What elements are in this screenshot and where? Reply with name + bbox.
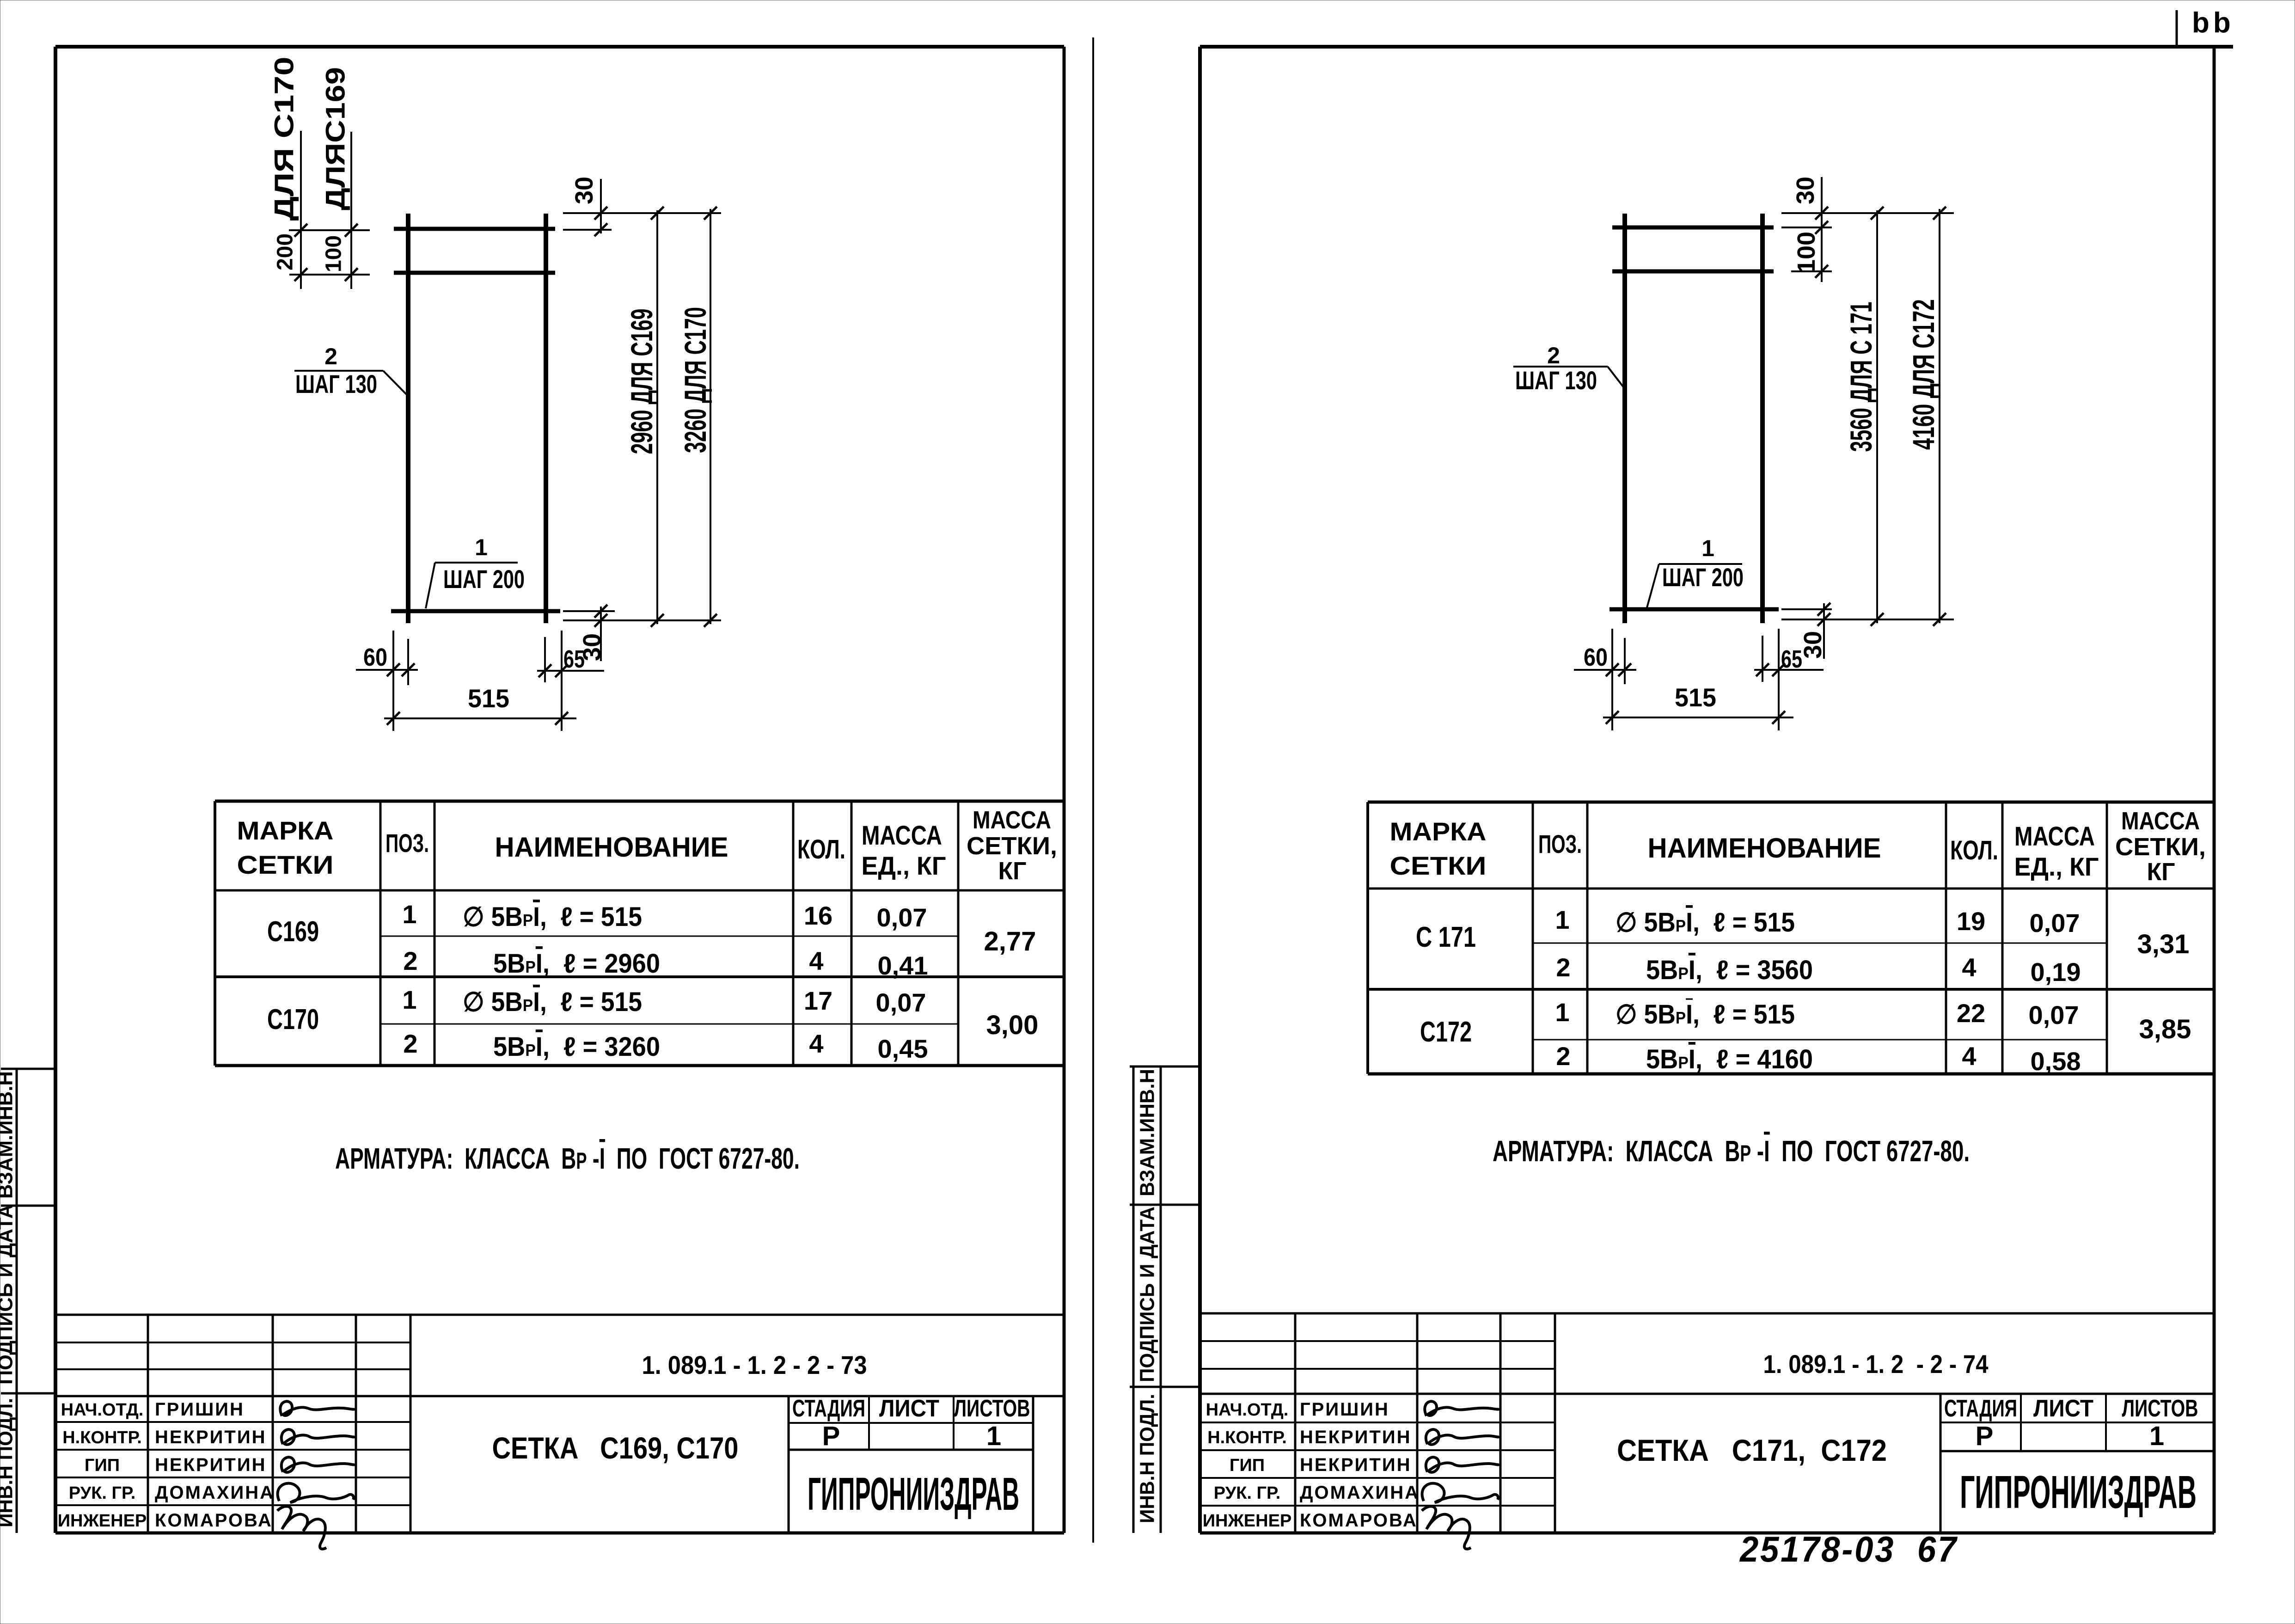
mesh2 right vertical wire [1760,214,1765,623]
table1 col МАССА СЕТКИ left [957,801,960,1066]
title1 col line 1 [147,1315,149,1533]
title2 signature Домахина [1422,1483,1499,1502]
svg-text:НЕКРИТИН: НЕКРИТИН [1300,1455,1411,1475]
svg-text:ЕД., КГ: ЕД., КГ [2014,852,2099,881]
title1 name row line 1 [56,1421,410,1423]
svg-text:17: 17 [804,986,832,1015]
svg-text:2: 2 [403,946,417,975]
svg-text:∅ 5ВРI, ℓ = 515: ∅ 5ВРI, ℓ = 515 [1616,999,1795,1030]
ext line left wire bottom [407,639,409,685]
title1 thin row line 2 [56,1368,410,1370]
table2 col КОЛ left [1945,802,1947,1074]
title2 signature Некритин 2 [1426,1457,1499,1472]
svg-text:1: 1 [1555,905,1569,934]
svg-text:ГРИШИН: ГРИШИН [155,1399,245,1420]
mesh2 top horizontal wire [1612,226,1774,230]
svg-text:СЕТКИ: СЕТКИ [237,850,334,879]
svg-text:2: 2 [403,1029,417,1058]
sheet2 frame left [1198,47,1202,1533]
svg-text:3,85: 3,85 [2139,1014,2191,1044]
svg-text:25178-03 67: 25178-03 67 [1739,1529,1958,1569]
mesh1 second horizontal wire [394,271,555,275]
svg-text:МАССА: МАССА [973,806,1051,834]
svg-text:0,19: 0,19 [2031,957,2081,987]
dim line 4160 для С172 [1939,209,1940,623]
title1 Р row underline [789,1449,1033,1451]
svg-text:АРМАТУРА: КЛАССА ВР -I ПО: АРМАТУРА: КЛАССА ВР -I ПО ГОСТ 6727-80. [1493,1134,1970,1168]
leader ШАГ 130 sheet2 [1608,367,1625,389]
svg-text:РУК. ГР.: РУК. ГР. [69,1483,136,1503]
sheet2 frame top [1200,45,2233,49]
table1 left border [214,801,216,1066]
dim line 3260 для С170 [710,209,711,624]
dim line 60 sheet2 [1574,669,1636,671]
svg-text:ПОЗ.: ПОЗ. [1538,829,1582,858]
dim line 515 sheet2 [1603,717,1793,718]
title2 main separator [1200,1393,2214,1395]
title1 signature Некритин [282,1429,355,1445]
title1 signature Гришин [280,1401,355,1416]
svg-text:КОМАРОВА: КОМАРОВА [1300,1510,1418,1531]
svg-text:С172: С172 [1420,1016,1472,1048]
title1 main separator [56,1395,1064,1397]
ext line mesh1 top right [563,212,721,214]
svg-text:С169: С169 [267,916,319,948]
dim line 100 для С169 [350,132,352,289]
svg-text:2: 2 [324,343,337,369]
svg-text:1: 1 [475,534,488,560]
svg-text:3,31: 3,31 [2137,929,2190,959]
svg-text:С170: С170 [267,1004,319,1036]
svg-text:НАИМЕНОВАНИЕ: НАИМЕНОВАНИЕ [495,832,728,863]
table1 C169 rows thin line [380,936,958,937]
title2 Р row underline [1940,1450,2214,1452]
strip2 divider 1 [1130,1204,1200,1206]
dim line 515 [384,717,576,719]
svg-text:КГ: КГ [998,857,1027,885]
svg-text:ДОМАХИНА: ДОМАХИНА [1300,1483,1420,1503]
title2 col СТАДИЯ/ЛИСТ [2020,1394,2022,1451]
leader from ШАГ 200 to wire [426,563,435,608]
svg-text:ПОДПИСЬ И ДАТА: ПОДПИСЬ И ДАТА [0,1204,17,1385]
title2 name row line 2 [1200,1449,1555,1451]
table1 header line [215,889,1064,892]
label 2 underline sheet2 [1513,366,1608,368]
dim ext line top (y=498) [289,229,370,231]
label 2 underline [294,370,383,372]
ext line top wire right [563,229,612,231]
ext line mesh2 top wire [1781,227,1832,228]
svg-text:1: 1 [402,985,416,1014]
ext line right wire bottom sheet2 [1762,636,1763,682]
title1 signature Комарова [277,1506,326,1549]
table2 top border [1368,801,2214,804]
svg-text:0,45: 0,45 [878,1034,928,1063]
svg-text:ИНЖЕНЕР: ИНЖЕНЕР [1203,1511,1292,1531]
dim line 60 [356,669,418,671]
svg-text:bb: bb [2192,7,2234,39]
dim line 30 bottom sheet2 [1823,603,1825,659]
table2 col МАССА ЕД left [2001,802,2004,1074]
svg-text:2: 2 [1547,343,1560,368]
ext line bottom left end [392,631,394,731]
svg-text:5ВРI, ℓ = 3560: 5ВРI, ℓ = 3560 [1646,955,1813,985]
svg-text:СЕТКА С169, С170: СЕТКА С169, С170 [492,1431,739,1465]
ext line bottom right end [561,631,563,731]
table2 col НАИМЕНОВАНИЕ left [1586,802,1589,1074]
svg-text:ШАГ 200: ШАГ 200 [443,564,525,594]
table2 col МАССА СЕТКИ left [2106,802,2108,1074]
svg-text:1: 1 [402,900,416,929]
table1 col НАИМЕНОВАНИЕ left [434,801,436,1066]
svg-text:ПОЗ.: ПОЗ. [386,828,429,858]
svg-text:ГИП: ГИП [1230,1456,1265,1475]
table1 top border [215,800,1064,803]
svg-text:0,58: 0,58 [2031,1047,2081,1076]
svg-text:60: 60 [363,643,387,671]
svg-text:0,41: 0,41 [878,951,928,980]
ext line mesh2 bottom [1781,619,1954,620]
mesh1 bottom horizontal wire [391,609,560,613]
strip2 vertical left [1132,1066,1135,1533]
sheet1 frame left [54,47,57,1533]
ext line mesh2 second wire [1791,270,1832,272]
pen tick before page number [2176,10,2178,48]
svg-text:1. 089.1 - 1. 2 - 2 - 74: 1. 089.1 - 1. 2 - 2 - 74 [1763,1349,1989,1379]
svg-text:ДЛЯ С170: ДЛЯ С170 [269,57,300,221]
svg-text:ИНВ.Н ПОДЛ.: ИНВ.Н ПОДЛ. [0,1398,17,1527]
table2 C171/C172 separator [1368,988,2214,991]
dim line 30/100 right sheet [1821,177,1823,282]
title2 col line 4 [1554,1313,1556,1533]
svg-text:Н.КОНТР.: Н.КОНТР. [62,1428,142,1447]
mesh1 left vertical wire [406,214,410,623]
svg-text:ШАГ 130: ШАГ 130 [1515,366,1597,395]
svg-text:ШАГ 200: ШАГ 200 [1662,563,1744,592]
sheet2 frame right [2213,47,2216,1533]
mesh2 left vertical wire [1622,214,1627,623]
svg-text:4: 4 [1962,1042,1976,1071]
svg-text:0,07: 0,07 [2029,1000,2079,1030]
svg-text:0,07: 0,07 [877,903,927,932]
sheet1 frame bottom [55,1532,1064,1535]
svg-text:АРМАТУРА: КЛАССА ВР -I ПО: АРМАТУРА: КЛАССА ВР -I ПО ГОСТ 6727-80. [335,1142,800,1175]
dim line 30 top [600,179,602,233]
svg-text:0,07: 0,07 [876,988,926,1017]
title1 signature Некритин 2 [282,1457,355,1472]
strip2 divider 2 [1130,1386,1200,1388]
svg-text:ГИПРОНИИЗДРАВ: ГИПРОНИИЗДРАВ [808,1468,1019,1520]
title1 col СТАДИЯ/ЛИСТ [868,1396,870,1450]
dim ext line (y=594) [289,274,370,276]
table1 C169/C170 separator [215,975,1064,978]
title2 signature Гришин [1425,1401,1499,1416]
leader from ШАГ 130 to wire [383,371,408,396]
mesh2 bottom horizontal wire [1610,607,1779,612]
title1 signature Домахина [278,1483,354,1502]
svg-text:МАРКА: МАРКА [237,816,334,845]
mesh1 right vertical wire [544,214,548,623]
mesh2 second horizontal wire [1612,270,1774,274]
svg-text:ГИПРОНИИЗДРАВ: ГИПРОНИИЗДРАВ [1960,1466,2197,1518]
table2 bottom border [1368,1072,2214,1076]
svg-text:5ВРI, ℓ = 2960: 5ВРI, ℓ = 2960 [493,949,660,979]
svg-text:19: 19 [1957,907,1985,936]
title1 СТАДИЯ block right [1032,1396,1034,1533]
svg-text:Р: Р [822,1421,840,1451]
svg-text:МАССА: МАССА [2121,807,2200,835]
title1 col line 3 [355,1315,357,1533]
svg-text:4160 ДЛЯ С172: 4160 ДЛЯ С172 [1906,299,1940,450]
svg-text:2: 2 [1556,953,1570,982]
svg-text:СЕТКИ,: СЕТКИ, [967,832,1057,860]
svg-text:100: 100 [322,235,346,272]
svg-text:СЕТКИ,: СЕТКИ, [2115,833,2206,861]
title2 СТАДИЯ block left [1940,1394,1942,1533]
table1 col КОЛ left [792,801,795,1066]
svg-text:С 171: С 171 [1416,921,1476,953]
svg-text:2960 ДЛЯ С169: 2960 ДЛЯ С169 [624,309,659,454]
svg-text:100: 100 [1793,232,1820,273]
sheet1 frame right [1063,47,1066,1533]
ext line mesh2 bottom wire [1781,608,1832,610]
svg-text:5ВРI, ℓ = 4160: 5ВРI, ℓ = 4160 [1646,1044,1813,1074]
title2 signature Некритин [1426,1429,1499,1445]
title1 col ЛИСТ/ЛИСТОВ [953,1396,955,1450]
svg-text:515: 515 [1675,683,1716,712]
title2 name row line 3 [1200,1477,1555,1479]
svg-text:ИНВ.Н ПОДЛ.: ИНВ.Н ПОДЛ. [1136,1394,1159,1523]
title1 name row line 4 [56,1504,410,1506]
label 1 underline sheet2 [1659,563,1742,565]
svg-text:5ВРI, ℓ = 3260: 5ВРI, ℓ = 3260 [493,1032,660,1062]
title1 name row line 2 [56,1449,410,1451]
ext line mesh2 top [1781,212,1954,214]
svg-text:СТАДИЯ: СТАДИЯ [1944,1395,2017,1422]
svg-text:Н.КОНТР.: Н.КОНТР. [1207,1428,1287,1447]
svg-text:∅ 5ВРI, ℓ = 515: ∅ 5ВРI, ℓ = 515 [1616,907,1795,938]
svg-text:65: 65 [1781,645,1802,673]
svg-text:СТАДИЯ: СТАДИЯ [792,1395,865,1422]
svg-text:2,77: 2,77 [984,926,1036,956]
svg-text:ЛИСТОВ: ЛИСТОВ [954,1395,1030,1422]
svg-text:2: 2 [1556,1042,1570,1071]
svg-text:Р: Р [1976,1421,1994,1451]
svg-text:200: 200 [273,233,298,270]
title2 col ЛИСТ/ЛИСТОВ [2105,1394,2107,1451]
svg-text:НЕКРИТИН: НЕКРИТИН [155,1427,266,1447]
title2 col line 3 [1499,1313,1502,1533]
strip1 divider 2 [1,1392,55,1395]
svg-text:3260 ДЛЯ С170: 3260 ДЛЯ С170 [678,307,712,453]
table1 col МАССА ЕД left [851,801,853,1066]
strip1 divider 1 [1,1205,55,1207]
title2 name row line 1 [1200,1422,1555,1423]
ext line mesh1 bottom right [563,619,721,621]
svg-text:МАССА: МАССА [862,821,942,851]
svg-text:4: 4 [1962,953,1976,982]
svg-text:СЕТКА С171, С172: СЕТКА С171, С172 [1617,1433,1887,1467]
svg-text:НЕКРИТИН: НЕКРИТИН [155,1455,266,1475]
svg-text:НАЧ.ОТД.: НАЧ.ОТД. [1206,1400,1289,1420]
dim line 2960 для С169 [656,210,658,624]
label 1 underline [435,562,518,564]
svg-text:ИНЖЕНЕР: ИНЖЕНЕР [58,1511,147,1531]
svg-text:30: 30 [570,177,598,204]
dim line 200 для С170 [300,131,302,289]
leader ШАГ 200 sheet2 [1646,564,1659,609]
svg-text:СЕТКИ: СЕТКИ [1390,851,1487,880]
svg-text:4: 4 [809,1029,823,1058]
svg-text:0,07: 0,07 [2030,908,2080,938]
ext line right wire bottom [544,637,546,682]
svg-text:НЕКРИТИН: НЕКРИТИН [1300,1427,1411,1447]
title1 top line [56,1314,1064,1316]
title2 signature Комарова [1422,1506,1471,1549]
dim line 30 bottom [600,607,602,661]
table2 C171 rows thin line [1533,943,2107,944]
svg-text:ГРИШИН: ГРИШИН [1300,1399,1389,1420]
sheet2 frame bottom [1200,1532,2214,1535]
svg-text:НАЧ.ОТД.: НАЧ.ОТД. [61,1400,144,1420]
svg-text:ДОМАХИНА: ДОМАХИНА [155,1483,275,1503]
svg-text:1. 089.1 - 1. 2 - 2 - 73: 1. 089.1 - 1. 2 - 2 - 73 [642,1350,867,1379]
svg-text:∅ 5ВРI, ℓ = 515: ∅ 5ВРI, ℓ = 515 [463,902,642,932]
title2 СТАДИЯ header underline [1940,1422,2214,1423]
svg-text:60: 60 [1584,643,1608,671]
table2 left border [1366,802,1369,1074]
mesh1 top horizontal wire [394,227,555,231]
svg-text:∅ 5ВРI, ℓ = 515: ∅ 5ВРI, ℓ = 515 [463,987,642,1017]
svg-text:ПОДПИСЬ И ДАТА: ПОДПИСЬ И ДАТА [1136,1207,1159,1382]
ext line bottom wire right [563,610,615,612]
dim line 65 [537,670,604,672]
sheet1 frame top [55,45,1064,49]
svg-text:ВЗАМ.ИНВ.Н: ВЗАМ.ИНВ.Н [0,1071,17,1199]
svg-text:МАССА: МАССА [2014,821,2095,852]
table2 col ПОЗ left [1532,802,1534,1074]
svg-text:КОМАРОВА: КОМАРОВА [155,1510,273,1531]
table1 bottom border [215,1064,1064,1067]
table1 C170 rows thin line [380,1023,958,1025]
title1 name row line 3 [56,1477,410,1478]
title1 thin row line 1 [56,1342,410,1343]
dim line 65 sheet2 [1754,669,1824,671]
svg-text:НАИМЕНОВАНИЕ: НАИМЕНОВАНИЕ [1648,833,1881,864]
dim line 3560 для С171 [1876,210,1878,623]
table2 header line [1368,888,2214,890]
svg-text:КОЛ.: КОЛ. [797,834,845,864]
svg-text:МАРКА: МАРКА [1390,817,1487,846]
svg-text:ЛИСТОВ: ЛИСТОВ [2122,1395,2198,1422]
svg-text:ДЛЯС169: ДЛЯС169 [321,67,351,210]
svg-text:515: 515 [468,684,509,713]
svg-text:22: 22 [1957,999,1985,1028]
svg-text:30: 30 [1792,177,1819,204]
strip1 vertical [16,1069,18,1533]
title1 col line 2 [272,1315,274,1533]
title2 thin row line 1 [1200,1340,1555,1342]
svg-text:1: 1 [2149,1421,2164,1451]
svg-text:3,00: 3,00 [986,1010,1039,1040]
svg-text:16: 16 [804,901,832,930]
svg-text:ГИП: ГИП [85,1456,120,1475]
title2 col line 1 [1294,1313,1297,1533]
svg-text:30: 30 [1799,631,1827,659]
ext line bottom right sheet2 [1778,629,1780,730]
title2 name row line 4 [1200,1505,1555,1507]
strip2 top cap [1130,1066,1200,1068]
svg-text:ШАГ 130: ШАГ 130 [295,369,377,398]
svg-text:4: 4 [809,946,823,975]
svg-text:65: 65 [563,645,585,673]
svg-text:РУК. ГР.: РУК. ГР. [1214,1483,1281,1503]
svg-text:ВЗАМ.ИНВ.Н: ВЗАМ.ИНВ.Н [1136,1069,1159,1196]
svg-text:3560 ДЛЯ С 171: 3560 ДЛЯ С 171 [1844,302,1878,452]
svg-text:ЛИСТ: ЛИСТ [2033,1395,2093,1422]
svg-text:КГ: КГ [2147,858,2175,886]
title2 top line [1200,1312,2214,1315]
title2 col line 2 [1416,1313,1419,1533]
svg-text:1: 1 [1555,998,1569,1027]
table1 col ПОЗ left [379,801,382,1066]
ext line left wire bottom sheet2 [1624,638,1626,684]
cut line between sheets [1092,37,1094,1543]
title1 СТАДИЯ header underline [789,1422,1033,1424]
ext line bottom left sheet2 [1611,629,1613,730]
svg-text:КОЛ.: КОЛ. [1950,835,1998,865]
svg-text:1: 1 [1701,535,1714,561]
svg-text:ЛИСТ: ЛИСТ [879,1395,939,1422]
table2 C172 rows thin line [1533,1039,2107,1041]
strip2 vertical right [1160,1066,1162,1533]
title1 СТАДИЯ block left [788,1396,790,1533]
svg-text:1: 1 [986,1421,1001,1451]
title1 col line 4 [410,1315,412,1533]
svg-text:ЕД., КГ: ЕД., КГ [862,851,946,880]
strip1 top cap [1,1068,55,1070]
title2 thin row line 2 [1200,1368,1555,1370]
